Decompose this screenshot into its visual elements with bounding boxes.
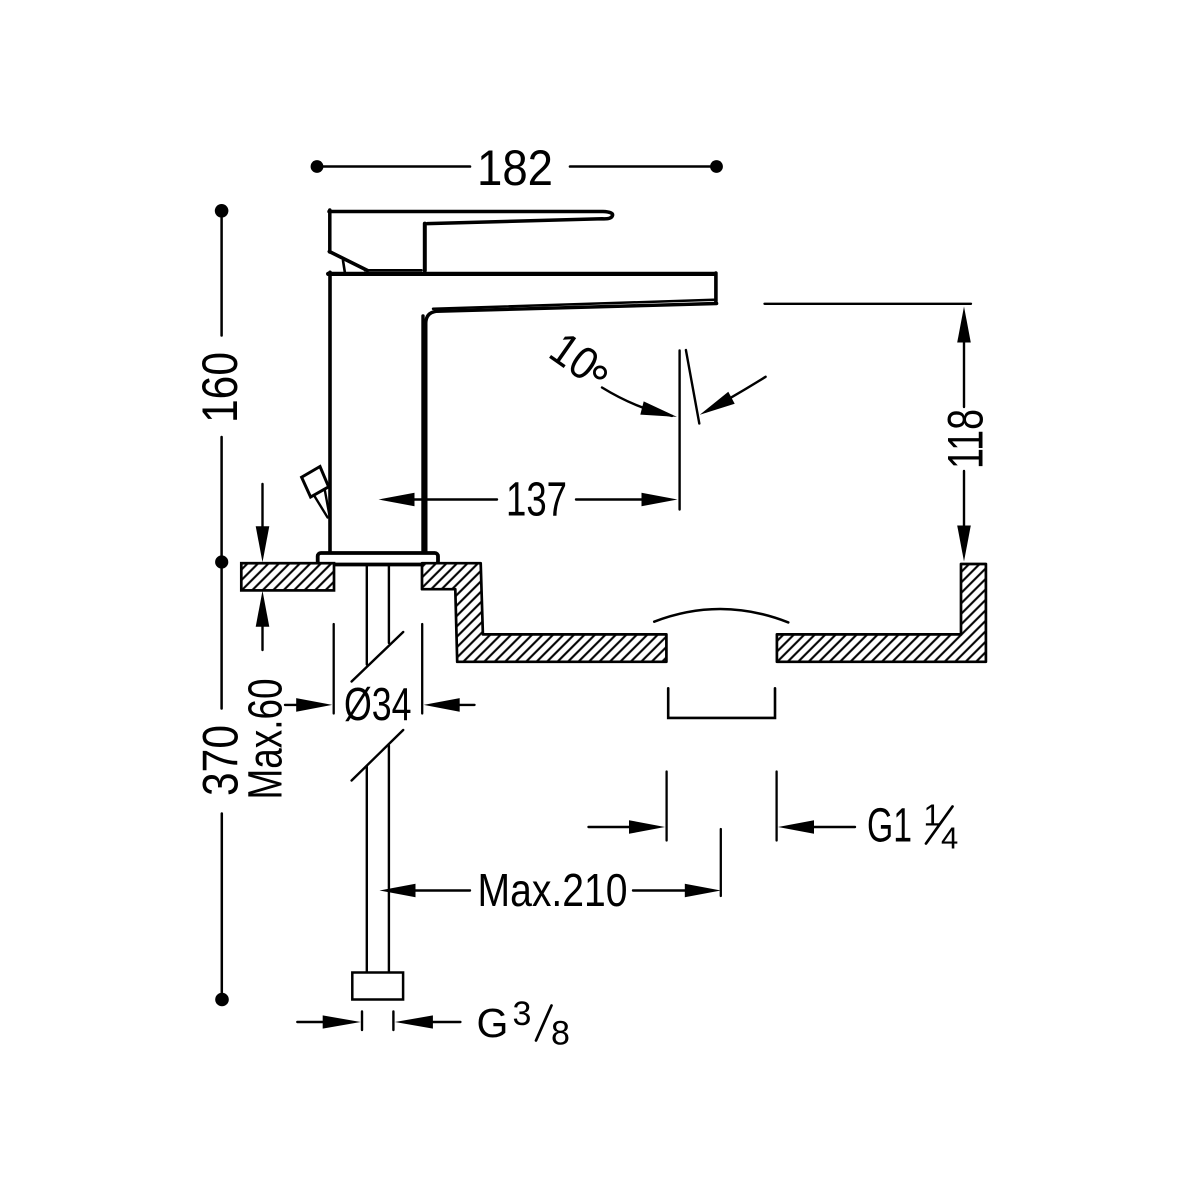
fraction slash of G 3/8: [536, 1006, 552, 1041]
faucet body top / spout top edge: [328, 272, 714, 276]
svg-text:G1: G1: [867, 800, 912, 853]
supply pipe upper right line: [388, 565, 390, 643]
svg-text:118: 118: [938, 409, 994, 469]
dimension G1 1/4 right arrow: [778, 820, 814, 834]
supply pipe lower left line: [366, 767, 368, 973]
dimension Ø34 left arrow: [285, 704, 299, 706]
tilted 10 degree line: [686, 350, 699, 424]
svg-text:1: 1: [924, 798, 941, 833]
dimension 160 line: [220, 218, 223, 336]
water stream vertical line: [678, 351, 680, 510]
svg-text:137: 137: [506, 474, 567, 527]
dimension 182 right dot: [710, 160, 723, 173]
body left edge: [328, 272, 332, 551]
drain fitting U bracket: [668, 688, 775, 718]
svg-text:8: 8: [551, 1015, 570, 1053]
body right edge inner line: [421, 316, 424, 552]
dimension 370 bottom dot: [215, 993, 229, 1007]
dimension Ø34 right arrow: [424, 698, 460, 712]
pop-up rod line 2: [325, 490, 330, 519]
countertop and basin left section: [422, 563, 666, 662]
supply pipe upper left line: [366, 565, 368, 665]
dimension Ø34 right witness line: [421, 624, 423, 714]
dimension 137 left arrow: [379, 493, 415, 507]
supply pipe lower right line: [388, 746, 390, 973]
dimension G1 1/4 left arrow: [589, 826, 631, 828]
spout right edge: [714, 273, 718, 302]
left angle arc: [602, 388, 672, 416]
lever blade of faucet: [329, 212, 613, 224]
svg-text:Max.60: Max.60: [240, 679, 293, 800]
countertop left block: [241, 563, 334, 590]
dimension 118 lower arrow: [963, 471, 965, 526]
right angle arc: [706, 377, 766, 412]
dimension 182 left dot: [311, 160, 324, 173]
pipe break slash lower: [352, 730, 404, 781]
dimension 160/370 middle dot: [215, 555, 228, 568]
dimension 370 line: [221, 814, 224, 994]
svg-text:4: 4: [941, 821, 958, 856]
svg-text:G: G: [477, 1000, 509, 1046]
dimension 118 extension line: [765, 303, 972, 305]
dimension G 3/8 right arrow: [395, 1015, 433, 1028]
dimension Max.210 right arrow: [633, 889, 686, 891]
basin right section and wall: [777, 564, 986, 662]
dimension Ø34 left witness line: [333, 624, 335, 714]
pipe break slash upper: [352, 632, 404, 682]
dimension G1 1/4 right witness line: [775, 772, 777, 841]
dimension G 3/8 right witness tick: [392, 1012, 394, 1031]
cartridge front edge: [423, 224, 427, 271]
dimension 182 line: [322, 165, 470, 168]
spout underside inner line: [433, 300, 714, 309]
pop-up rod line 1: [314, 495, 328, 518]
dimension Max.210 left arrow: [380, 884, 416, 898]
dimension 137 right arrow: [576, 498, 642, 500]
dimension Max.60 upper arrow: [261, 484, 263, 527]
svg-text:Ø34: Ø34: [344, 678, 412, 730]
lever chin base line: [365, 269, 422, 272]
lever chin diagonal: [329, 252, 367, 271]
drain axis witness line: [720, 829, 722, 896]
base flange: [318, 553, 438, 565]
svg-text:160: 160: [192, 352, 248, 423]
lever chin tick: [343, 261, 345, 273]
dimension G 3/8 left witness tick: [361, 1012, 363, 1031]
dimension Max.60 lower arrow: [256, 591, 270, 627]
lever left edge: [328, 210, 332, 252]
svg-text:Max.210: Max.210: [478, 864, 628, 916]
dimension G1 1/4 left witness line: [665, 772, 667, 841]
svg-text:3: 3: [513, 995, 532, 1033]
pop-up knob: [302, 467, 329, 498]
fraction slash of G1 1/4: [926, 807, 953, 844]
dimension G 3/8 left arrow: [297, 1021, 325, 1023]
supply pipe end nut: [352, 973, 403, 1000]
spout underside outer line and body right edge: [426, 304, 717, 552]
dimension 160 top dot: [215, 204, 229, 218]
svg-text:182: 182: [477, 140, 553, 196]
dimension 118 upper arrow: [957, 307, 971, 343]
overflow arc over drain: [654, 609, 788, 622]
